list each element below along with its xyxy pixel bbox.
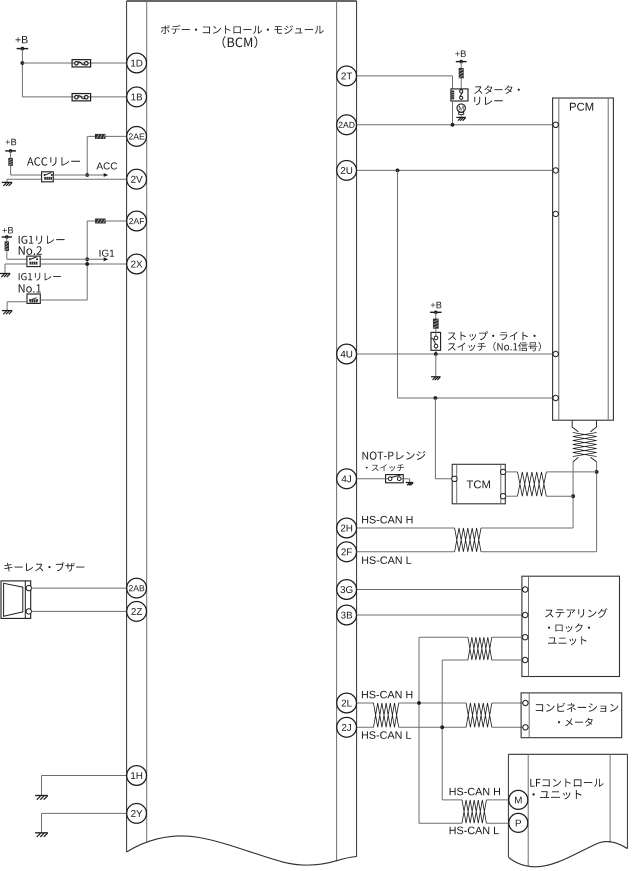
junction dot IG1 switch out bbox=[85, 257, 89, 261]
wire twisted-pair LF CAN bbox=[462, 800, 486, 823]
ground IG1 relay No.1 bbox=[2, 311, 13, 315]
wire L to meter bbox=[492, 726, 523, 728]
fusible link F6 (IG1 +B) bbox=[5, 241, 9, 251]
pin steering pin2 bbox=[523, 612, 528, 617]
junction dot H bus bbox=[417, 701, 421, 705]
BCM module box outline bbox=[127, 1, 357, 857]
wire IG1 +B down bbox=[7, 237, 27, 259]
wire TCM CAN-L stub bbox=[506, 495, 518, 497]
pin TCM pin right lower bbox=[500, 494, 505, 499]
pin PCM pin (2AD) bbox=[553, 122, 558, 127]
node 2AF (BCM terminal) bbox=[127, 211, 147, 231]
wire PCM CAN-L drop bbox=[596, 462, 598, 552]
LF control unit box bbox=[508, 754, 627, 866]
fusible link F7 (starter +B) bbox=[459, 68, 464, 78]
power node B4 (+B) bbox=[456, 60, 467, 64]
wire to 2V bbox=[53, 178, 126, 180]
wire CAN-H drop A bbox=[418, 637, 420, 823]
wire 2AE feed bbox=[87, 135, 126, 137]
ground stop light switch bbox=[431, 377, 441, 380]
junction dot CAN-H at TCM bbox=[571, 494, 575, 498]
wire H to meter bbox=[492, 702, 523, 704]
label ACC bbox=[96, 162, 117, 169]
wire twisted-pair PCM CAN bbox=[573, 433, 597, 457]
ground starter motor bbox=[456, 117, 466, 120]
wire TCM CAN-L to node bbox=[546, 495, 573, 497]
wire steering CAN-H segment bbox=[419, 636, 523, 638]
wire 2F to CAN-L drop bbox=[481, 551, 597, 553]
wire 2AE riser bbox=[86, 136, 88, 175]
pin PCM pin (2U) bbox=[553, 168, 558, 173]
wire twisted-pair TCM CAN bbox=[518, 472, 547, 496]
starter motor M bbox=[457, 104, 465, 117]
pin PCM pin (branch) bbox=[553, 395, 558, 400]
wire twisted-pair steering CAN bbox=[468, 637, 492, 660]
wire 2T to starter relay bbox=[357, 76, 453, 89]
wire 2J stub bbox=[357, 726, 374, 728]
label +B (starter relay) bbox=[455, 51, 466, 57]
wire NOT-P to ground bbox=[403, 479, 409, 483]
wire twisted-pair 2L/2J CAN bbox=[374, 703, 399, 727]
label steering lock line1 bbox=[545, 608, 607, 618]
BCM inner left rail bbox=[146, 1, 148, 842]
node 2T (BCM terminal) bbox=[337, 66, 357, 86]
node 4U (BCM terminal) bbox=[337, 344, 357, 364]
label HS-CAN H (2L) bbox=[362, 691, 412, 699]
pin steering pin1 bbox=[523, 587, 528, 592]
wire L bus bbox=[399, 726, 466, 728]
node 2Z (BCM terminal) bbox=[127, 602, 147, 622]
label PCM bbox=[570, 103, 593, 111]
ground 2Y bbox=[35, 833, 48, 837]
BCM title (BCM) text bbox=[223, 36, 258, 48]
node 1D (BCM terminal) bbox=[127, 53, 147, 73]
label stop light switch line2 bbox=[448, 342, 541, 351]
label combination meter line2 bbox=[558, 718, 593, 727]
fuse F1 (1D circuit) bbox=[72, 60, 91, 67]
TCM box bbox=[452, 464, 505, 504]
wire IG1 No.1 switch link bbox=[40, 299, 87, 301]
NOT-P range switch bbox=[386, 475, 404, 483]
wire 4U to PCM bbox=[357, 353, 553, 355]
wire 2U branch riser bbox=[397, 170, 399, 398]
wire 4J to NOT-P switch bbox=[357, 478, 386, 480]
wire H bus bbox=[399, 702, 466, 704]
pin PCM pin (4U) bbox=[553, 351, 558, 356]
label ACC relay bbox=[27, 157, 80, 166]
wire starter relay coil down bbox=[452, 101, 454, 125]
junction dot starter coil on 2AD bbox=[451, 123, 455, 127]
label IG1 relay No.2 line1 bbox=[19, 236, 65, 245]
wire TCM CAN-H to node bbox=[546, 471, 596, 473]
node 2U (BCM terminal) bbox=[337, 161, 357, 181]
pin TCM pin left bbox=[452, 476, 457, 481]
pin buzzer terminal A bbox=[26, 585, 31, 590]
label LF unit line2 bbox=[532, 790, 581, 799]
wire stoplight to ground bbox=[435, 354, 437, 377]
ground ACC relay bbox=[2, 182, 13, 186]
wire to 1B bbox=[22, 96, 126, 98]
LF unit bottom wavy break line bbox=[508, 842, 627, 867]
fuse F2 (1B circuit) bbox=[72, 94, 91, 101]
PCM CAN taper out bbox=[573, 457, 597, 462]
relay IG1 relay No.2 bbox=[27, 256, 40, 267]
fusible link F3 (2AE) bbox=[95, 134, 106, 139]
label NOT-P line2 bbox=[366, 464, 404, 471]
label starter relay line2 bbox=[474, 97, 503, 106]
fusible link F8 (stop light) bbox=[433, 319, 439, 329]
relay IG1 relay No.1 bbox=[27, 294, 40, 303]
junction dot 2U branch bbox=[396, 169, 400, 173]
label TCM bbox=[467, 480, 490, 488]
node 1B (BCM terminal) bbox=[127, 87, 147, 107]
wire +B down-feed bbox=[21, 49, 23, 97]
ground NOT-P switch bbox=[406, 483, 414, 486]
fusible link F5 (2AF) bbox=[95, 219, 106, 224]
wire TCM branch to TCM bbox=[435, 478, 452, 480]
node 2AD (BCM terminal) bbox=[337, 115, 357, 135]
pin buzzer terminal B bbox=[26, 609, 31, 614]
node 2AB (BCM terminal) bbox=[127, 578, 147, 598]
wire stoplight +B down bbox=[435, 312, 437, 332]
steering lock unit box bbox=[522, 576, 620, 676]
PCM connector taper bbox=[572, 420, 596, 432]
junction dot CAN-L at TCM bbox=[595, 470, 599, 474]
label +B (ACC relay) bbox=[6, 139, 17, 145]
node M (LF terminal) bbox=[509, 790, 528, 809]
BCM title text bbox=[161, 25, 324, 34]
wire twisted-pair 2H/2F CAN bbox=[455, 528, 481, 552]
relay ACC relay bbox=[42, 172, 54, 182]
label HS-CAN L (2J) bbox=[362, 731, 411, 739]
junction dot 1D feed bbox=[21, 61, 25, 65]
wire buzzer to 2Z bbox=[31, 610, 126, 612]
wire IG1 No.2 coil to ground bbox=[5, 264, 27, 273]
wire 3G to steering lock bbox=[357, 589, 523, 591]
label HS-CAN L (2F) bbox=[362, 556, 411, 564]
node 2Y (BCM terminal) bbox=[127, 804, 147, 824]
node 2J (BCM terminal) bbox=[337, 717, 357, 737]
junction dot 2X net bbox=[85, 262, 89, 266]
wire 2AF feed bbox=[87, 220, 126, 222]
starter relay box bbox=[451, 89, 468, 101]
wire starter +B down bbox=[460, 62, 462, 89]
label HS-CAN H (LF) bbox=[450, 788, 500, 796]
pin steering pin3 bbox=[523, 635, 528, 640]
pin steering pin4 bbox=[523, 657, 528, 662]
wire ACC relay coil to ground bbox=[7, 179, 42, 182]
label steering lock line2 bbox=[548, 623, 590, 632]
BCM inner right rail bbox=[336, 1, 338, 862]
node 2H (BCM terminal) bbox=[337, 518, 357, 538]
wire twisted-pair meter CAN bbox=[466, 703, 492, 727]
power node B2 (+B) bbox=[5, 149, 16, 153]
node 1H (BCM terminal) bbox=[127, 766, 147, 786]
pin PCM pin (nc) bbox=[553, 211, 558, 216]
wire 3B to steering lock bbox=[357, 614, 523, 616]
wire 2U to PCM bbox=[357, 169, 553, 171]
wire branch to PCM pin5 bbox=[398, 397, 553, 399]
wire P stub bbox=[419, 822, 462, 824]
stop light switch bbox=[431, 332, 441, 350]
BCM bottom wavy break line bbox=[127, 836, 357, 865]
label combination meter line1 bbox=[536, 703, 619, 712]
label +B (top-left) bbox=[16, 36, 28, 43]
label steering lock line3 bbox=[548, 636, 587, 645]
power node B3 (+B) bbox=[2, 235, 12, 239]
label IG1 relay No.1 line2 bbox=[19, 284, 41, 292]
wire M stub bbox=[442, 799, 462, 801]
wire 2AF riser bbox=[86, 221, 88, 300]
pin meter pin1 bbox=[523, 700, 528, 705]
node P (LF terminal) bbox=[509, 813, 528, 832]
label IG1 bbox=[100, 250, 115, 257]
node 2F (BCM terminal) bbox=[337, 542, 357, 562]
signal arrow ACC bbox=[53, 173, 108, 177]
junction dot stoplight on 4U bbox=[434, 352, 438, 356]
junction dot ACC output bbox=[85, 173, 89, 177]
combination meter box bbox=[521, 693, 622, 738]
label IG1 relay No.1 line1 bbox=[19, 273, 61, 281]
node 2L (BCM terminal) bbox=[337, 693, 357, 713]
label +B (IG1 relay) bbox=[3, 227, 14, 233]
label IG1 relay No.2 line2 bbox=[19, 246, 42, 255]
wire CAN-L drop B bbox=[441, 660, 443, 800]
wire PCM CAN-H drop bbox=[572, 462, 574, 528]
label LF unit line1 bbox=[530, 779, 603, 787]
wire IG1 No.1 coil to ground bbox=[7, 302, 27, 311]
wire stoplight switch to 4U bbox=[435, 350, 437, 354]
node 2X (BCM terminal) bbox=[127, 254, 147, 274]
wire 2H to CAN-H drop bbox=[481, 527, 573, 529]
junction dot L bus bbox=[440, 725, 444, 729]
label +B (stop light sw) bbox=[431, 302, 442, 308]
wire 1H to ground bbox=[42, 776, 127, 796]
wire 2F segment bbox=[357, 551, 455, 553]
wire steering CAN-L segment bbox=[442, 659, 522, 661]
power node B1 (+B) bbox=[17, 47, 29, 51]
node 3B (BCM terminal) bbox=[337, 605, 357, 625]
node 2AE (BCM terminal) bbox=[127, 126, 147, 146]
wire to 2X bbox=[40, 263, 126, 265]
label stop light switch line1 bbox=[448, 331, 536, 340]
wire P to LF bbox=[486, 822, 509, 824]
PCM box bbox=[553, 98, 614, 420]
node 3G (BCM terminal) bbox=[337, 580, 357, 600]
pin TCM pin right upper bbox=[500, 469, 505, 474]
label keyless buzzer bbox=[4, 562, 84, 571]
signal arrow IG1 bbox=[40, 257, 108, 261]
label NOT-P line1 bbox=[363, 451, 426, 460]
wire 2AD to PCM bbox=[357, 124, 553, 126]
label HS-CAN H (2H) bbox=[362, 516, 412, 524]
wire 2H segment bbox=[357, 527, 455, 529]
label starter relay line1 bbox=[474, 85, 520, 94]
wire M to LF bbox=[486, 799, 509, 801]
ground IG1 relay No.2 bbox=[0, 274, 10, 278]
wire to 1D bbox=[22, 62, 126, 64]
pin meter pin2 bbox=[523, 725, 528, 730]
node 4J (BCM terminal) bbox=[337, 469, 357, 489]
wire TCM branch riser bbox=[434, 398, 436, 479]
wire TCM CAN-H stub bbox=[506, 471, 518, 473]
junction dot TCM branch bbox=[434, 396, 438, 400]
wire buzzer to 2AB bbox=[31, 587, 126, 589]
power node B5 (+B) bbox=[430, 311, 441, 315]
keyless buzzer speaker symbol bbox=[1, 581, 31, 619]
wire 2Y to ground bbox=[42, 813, 127, 832]
fusible link F4 (ACC +B) bbox=[8, 158, 13, 166]
node 2V (BCM terminal) bbox=[127, 169, 147, 189]
wire 2L stub bbox=[357, 702, 374, 704]
wire ACC +B down bbox=[11, 151, 42, 175]
label HS-CAN L (LF) bbox=[450, 827, 499, 835]
ground 1H bbox=[35, 796, 48, 800]
